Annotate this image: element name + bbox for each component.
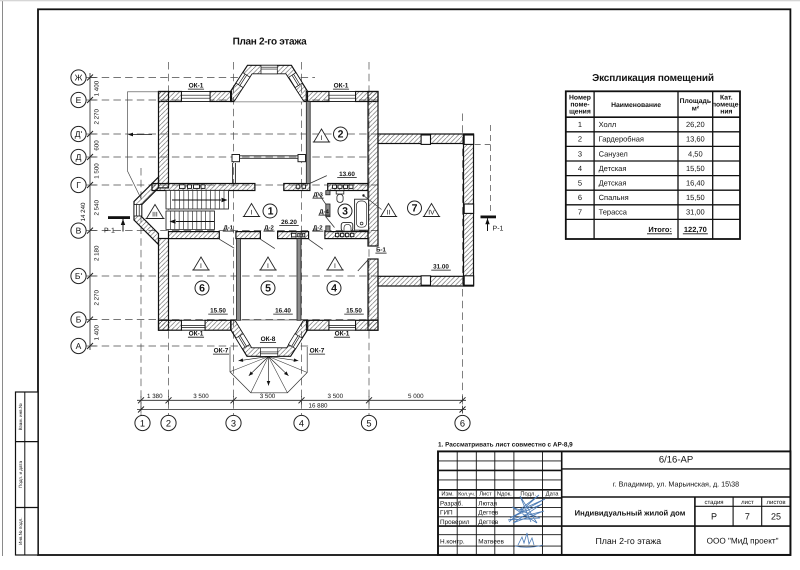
svg-text:Изм.: Изм. [441,491,454,497]
room 6 marker [193,257,208,270]
entrance porch walls [134,177,159,245]
svg-text:Спальня: Спальня [599,193,629,202]
porch window [134,205,142,217]
svg-text:26,20: 26,20 [686,120,705,129]
door D-3 swing wall G [310,176,327,184]
svg-text:Санузел: Санузел [599,149,628,158]
svg-text:5: 5 [578,179,582,188]
svg-text:Проверил: Проверил [440,519,470,526]
svg-text:2 270: 2 270 [94,108,101,124]
svg-text:ния: ния [720,109,732,116]
room 3 marker [338,204,352,218]
svg-text:6/16-АР: 6/16-АР [659,455,693,466]
svg-text:15,50: 15,50 [686,193,705,202]
signatures blue [508,495,545,523]
roof slope arrow [133,134,152,136]
door D-2 swing room5 [260,239,274,248]
svg-text:Номер: Номер [569,95,591,102]
svg-text:Наименование: Наименование [611,102,661,109]
svg-text:1: 1 [140,418,145,428]
svg-text:ОК-1: ОК-1 [334,83,349,90]
svg-text:16 880: 16 880 [309,402,328,409]
svg-text:I: I [321,135,323,142]
svg-text:г. Владимир, ул. Марьинская, д: г. Владимир, ул. Марьинская, д. 15\38 [613,480,739,489]
svg-text:7: 7 [412,203,418,215]
left exterior wall upper [159,92,169,188]
room 1 marker [244,204,259,217]
title block grid [438,451,790,555]
stair up arrow [172,199,221,201]
vent boxes bathroom top wall [333,185,337,188]
svg-text:15.50: 15.50 [210,308,226,315]
svg-text:Д-1: Д-1 [223,225,233,232]
door D-2 swing room4 [309,239,323,249]
right exterior wall (axis 5) [368,92,378,247]
bottom bay glazing flat OK-8 [260,348,277,357]
svg-text:Е: Е [76,95,82,105]
svg-text:Кол.уч.: Кол.уч. [458,491,475,497]
svg-text:1 400: 1 400 [94,324,101,340]
partition rooms 6/5 [237,239,241,321]
svg-text:3: 3 [342,206,348,218]
terrace fan lines [230,357,269,372]
svg-text:4: 4 [578,164,582,173]
top window OK-1 right [329,92,356,102]
svg-text:6: 6 [460,418,465,428]
svg-text:31,00: 31,00 [686,208,705,217]
svg-text:Дегтев: Дегтев [478,510,499,517]
svg-text:Б-1: Б-1 [376,247,386,254]
svg-text:1 500: 1 500 [94,163,101,179]
svg-text:План 2-го этажа: План 2-го этажа [233,37,308,48]
svg-text:Итого:: Итого: [648,225,672,234]
svg-text:Nдок.: Nдок. [497,491,512,497]
svg-text:Холл: Холл [599,120,617,129]
left exterior wall lower [159,239,169,331]
svg-text:122,70: 122,70 [684,225,707,234]
svg-text:3 500: 3 500 [193,393,209,400]
small squares in wall G near axis 4 [296,185,300,188]
svg-text:листов: листов [766,500,785,506]
vent boxes on wall V [292,233,297,237]
section mark R-1 right [481,216,497,219]
svg-text:ОК-7: ОК-7 [310,348,325,355]
svg-text:7: 7 [578,208,582,217]
top bay window walls [231,65,308,101]
svg-text:5 000: 5 000 [408,393,424,400]
stair down arrow [176,221,214,223]
bottom window OK-1 left [182,320,206,330]
svg-text:Р-1: Р-1 [104,228,115,235]
bottom bay glazing left diagonal OK-7 [236,334,250,349]
svg-text:6: 6 [199,283,205,295]
svg-text:ОК-1: ОК-1 [189,331,204,338]
svg-text:м²: м² [692,106,700,113]
svg-text:2 540: 2 540 [94,199,101,215]
wall on axis G segments [152,184,255,191]
door D-1 swing [219,239,234,248]
door B-1 opening swing [358,259,369,271]
top bay floor edge line [234,101,304,103]
svg-text:600: 600 [94,140,101,151]
svg-text:ГИП: ГИП [440,510,453,517]
svg-text:ОК-7: ОК-7 [214,348,229,355]
terrace bottom wall [378,276,474,286]
svg-text:Г: Г [76,180,81,190]
svg-text:стадия: стадия [704,500,723,506]
svg-text:Р: Р [711,512,717,522]
svg-text:поме-: поме- [570,102,589,109]
svg-text:Лютая: Лютая [478,500,497,507]
svg-text:Д-2: Д-2 [313,225,323,232]
bay window glazing left diagonal [236,73,250,88]
svg-text:3: 3 [231,418,236,428]
svg-text:I: I [200,263,202,270]
svg-text:4: 4 [331,283,337,295]
terrace top wall [378,134,474,144]
top exterior wall segments (axis E) [159,92,182,102]
door D-4 swing bathroom [326,217,335,228]
svg-text:I: I [334,263,336,270]
left dimension chain [89,73,91,350]
bay window glazing top flat OK-1 [261,65,277,74]
svg-text:Взам. инв.№: Взам. инв.№ [18,403,23,430]
svg-text:лист: лист [741,500,754,506]
left axis letter circles [71,70,86,85]
svg-text:Гардеробная: Гардеробная [599,135,644,144]
svg-text:II: II [387,210,391,217]
svg-text:Д-4: Д-4 [319,209,329,216]
svg-text:Индивидуальный жилой дом: Индивидуальный жилой дом [575,508,686,517]
svg-text:2: 2 [338,129,344,141]
svg-text:помеще-: помеще- [712,102,741,109]
svg-text:В: В [76,226,82,236]
svg-text:Матвеев: Матвеев [478,539,504,546]
bath tub [355,199,369,230]
terrace columns [421,135,430,144]
svg-text:щения: щения [569,109,591,116]
svg-text:Подл.: Подл. [520,491,536,497]
svg-text:Экспликация помещений: Экспликация помещений [592,73,714,84]
svg-text:16.40: 16.40 [275,308,291,315]
svg-text:1: 1 [268,206,274,218]
svg-text:ОК-1: ОК-1 [335,331,350,338]
svg-text:2 270: 2 270 [94,289,101,305]
svg-text:Д: Д [76,152,82,162]
axis grid dashed lines vertical [140,168,142,416]
svg-text:3 500: 3 500 [328,393,344,400]
svg-text:Разраб.: Разраб. [440,500,463,507]
partition hall/room2 [306,102,310,184]
lower terrace pentagon outline [230,347,307,393]
svg-text:Площадь: Площадь [680,98,711,105]
svg-text:III: III [152,212,158,219]
bottom bay glazing right diagonal OK-7 [288,334,302,349]
svg-text:6: 6 [578,193,582,202]
svg-text:31.00: 31.00 [433,264,449,271]
svg-text:Дата: Дата [546,491,560,497]
terrace fan arrows [239,357,269,361]
door D-3 swing bathroom [318,192,326,204]
svg-text:13.60: 13.60 [339,171,355,178]
svg-text:I: I [251,210,253,217]
stair marker III [147,205,164,219]
svg-text:1 380: 1 380 [147,393,163,400]
explication table [566,91,740,239]
stair opening rail vertical [232,163,234,184]
svg-text:Д-2: Д-2 [264,225,274,232]
first floor roof outline thin [128,92,159,200]
room 4 marker [327,257,342,270]
svg-text:Детская: Детская [599,164,627,173]
bottom exterior wall segments (axis B) [159,320,182,330]
svg-text:13,60: 13,60 [686,135,705,144]
svg-text:1 400: 1 400 [94,80,101,96]
svg-text:Б: Б [76,315,82,325]
svg-text:Дегтев: Дегтев [478,519,499,526]
svg-text:Р-1: Р-1 [493,226,504,233]
hidden contour dashed right of terrace [475,144,491,146]
svg-text:15,50: 15,50 [686,164,705,173]
bottom axis number circles [135,415,150,430]
svg-text:Подп. и дата: Подп. и дата [18,461,23,489]
svg-text:Детская: Детская [599,179,627,188]
svg-text:1. Рассматривать лист совмест: 1. Рассматривать лист совместно с АР-8,9 [438,441,573,448]
bay window glazing right diagonal [289,73,303,88]
section mark R-1 left [108,216,130,219]
svg-text:Инв.№ подл.: Инв.№ подл. [18,518,23,545]
svg-text:25: 25 [771,512,781,522]
svg-text:IV: IV [428,210,435,217]
bathroom left wall segments [326,191,330,195]
axis grid dashed lines horizontal [90,77,315,79]
bottom window OK-1 right [329,320,356,330]
svg-text:3 500: 3 500 [260,393,276,400]
partition rooms 5/4 [297,239,301,321]
svg-text:1: 1 [578,120,582,129]
corridor wall on axis V segments [169,232,220,239]
svg-text:5: 5 [366,418,371,428]
svg-text:Лист: Лист [479,491,492,497]
svg-text:I: I [267,263,269,270]
bottom bay window walls [231,320,308,356]
svg-text:7: 7 [745,512,750,522]
svg-text:Кат.: Кат. [720,95,733,102]
svg-text:5: 5 [265,283,271,295]
svg-text:План 2-го этажа: План 2-го этажа [595,536,661,546]
svg-text:4: 4 [299,418,304,428]
svg-text:Ж: Ж [75,73,83,83]
vent boxes bathroom bottom wall [336,233,339,236]
room 2 marker [314,129,329,142]
leader line to triangle II [362,194,364,196]
svg-text:Терасса: Терасса [599,208,628,217]
svg-text:2: 2 [166,418,171,428]
svg-text:4,50: 4,50 [688,149,703,158]
left margin stamp strip [16,392,39,555]
svg-text:Б': Б' [75,271,83,281]
svg-text:Д-3: Д-3 [313,192,323,199]
svg-text:ОК-8: ОК-8 [261,336,276,343]
terrace right wall [464,134,474,286]
stair opening corner posts [232,155,240,162]
room 7 marker [381,204,396,217]
staircase flights [166,191,229,210]
top window OK-1 left [182,92,211,102]
toilet [336,191,344,194]
page edge left [2,1,4,556]
svg-text:14 240: 14 240 [80,202,87,221]
stair opening rail horizontal [240,155,299,157]
svg-text:26.20: 26.20 [281,219,297,226]
svg-text:16,40: 16,40 [686,179,705,188]
svg-text:3: 3 [578,149,582,158]
svg-text:Н.контр.: Н.контр. [440,539,465,546]
svg-text:15.50: 15.50 [346,308,362,315]
sink [341,222,353,231]
svg-text:Д': Д' [75,129,83,139]
svg-text:А: А [76,341,82,351]
svg-text:2 180: 2 180 [94,245,101,261]
bottom dimension chain [137,399,466,401]
room 5 marker [260,257,275,270]
svg-text:ОК-1: ОК-1 [189,83,204,90]
svg-text:2: 2 [578,135,582,144]
svg-text:ООО "МиД проект": ООО "МиД проект" [707,537,779,546]
vent boxes on wall G [180,185,186,189]
page edge top [0,0,800,2]
